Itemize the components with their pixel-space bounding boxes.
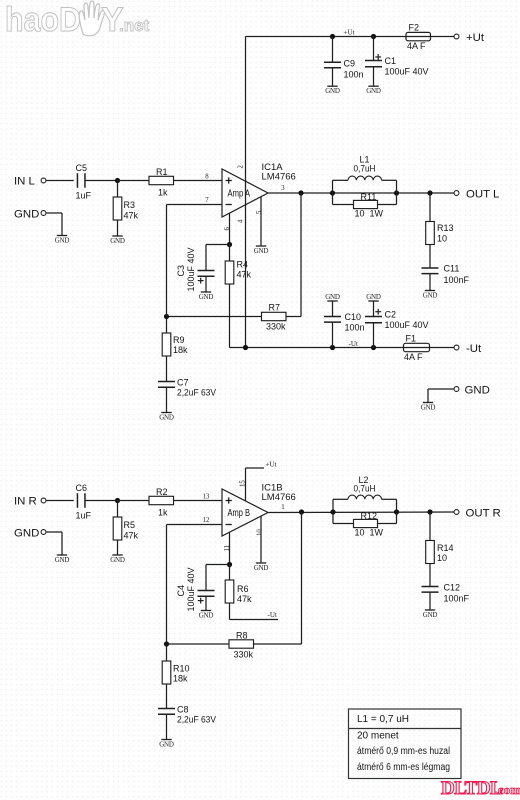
resistor R5 47k [117, 501, 119, 518]
junction pin11/C4/R6 [227, 562, 232, 567]
svg-text:15: 15 [240, 480, 247, 487]
svg-text:1uF: 1uF [76, 511, 92, 521]
wire to C3 [206, 244, 230, 246]
svg-text:átmérő 0,9 mm-es huzal: átmérő 0,9 mm-es huzal [357, 746, 450, 757]
svg-text:C5: C5 [76, 163, 88, 173]
junction output/L1 left [330, 190, 335, 195]
junction top rail C9 [330, 34, 335, 39]
ground below pin 5 [256, 245, 266, 247]
resistor R13 10 [429, 193, 431, 222]
wire R2 to IC1B pin 13 [174, 500, 223, 502]
fuse F1 4A F [404, 343, 430, 351]
svg-text:C9: C9 [344, 59, 356, 69]
wire C5 to node [85, 180, 118, 182]
feedback wire from output [300, 193, 302, 317]
junction feedback/R9 [164, 314, 169, 319]
junction feedback/R10 [164, 641, 169, 646]
wire R1 to IC1A pin 8 [174, 180, 223, 182]
svg-text:GND: GND [423, 611, 438, 619]
svg-text:R3: R3 [124, 200, 136, 210]
inductor L1 0,7uH [332, 180, 334, 193]
svg-text:8: 8 [205, 174, 209, 181]
svg-text:100nF: 100nF [444, 275, 470, 285]
svg-text:R7: R7 [269, 303, 281, 313]
pin 15 wire to +Ut stub [245, 468, 247, 501]
junction L2 right [394, 509, 399, 514]
svg-text:IN L: IN L [14, 176, 35, 188]
svg-text:18k: 18k [173, 674, 188, 684]
svg-text:R11: R11 [361, 192, 377, 202]
svg-text:12: 12 [203, 517, 210, 524]
wire GND terminal R [46, 531, 62, 533]
svg-text:0,7uH: 0,7uH [354, 484, 376, 494]
svg-text:1uF: 1uF [76, 191, 92, 201]
junction pin6/C3/R4 [227, 242, 232, 247]
capacitor C4 100uF 40V [198, 590, 215, 592]
wire R14 to C12 [429, 564, 431, 587]
capacitor C7 2,2uF 63V [158, 381, 175, 383]
wire IC1A output [268, 192, 454, 194]
svg-text:C7: C7 [177, 378, 189, 388]
svg-text:GND: GND [465, 385, 490, 397]
ground symbol right [423, 402, 433, 404]
svg-text:GND: GND [423, 292, 438, 300]
svg-text:GND: GND [199, 612, 214, 620]
svg-text:GND: GND [325, 293, 340, 301]
svg-text:R5: R5 [124, 520, 136, 530]
pin 6 wire [229, 214, 231, 245]
svg-text:IN R: IN R [14, 496, 37, 508]
svg-text:100n: 100n [345, 323, 365, 333]
svg-text:.com: .com [495, 783, 520, 797]
resistor R2 1k [149, 496, 174, 504]
svg-text:11: 11 [224, 545, 231, 552]
svg-text:C12: C12 [444, 583, 461, 593]
resistor R1 1k [149, 176, 174, 184]
svg-text:F2: F2 [409, 23, 420, 33]
svg-text:GND: GND [159, 741, 174, 749]
resistor R10 18k [166, 644, 168, 661]
svg-text:OUT R: OUT R [466, 508, 501, 520]
resistor R8 330k [229, 640, 254, 648]
resistor R7 330k [262, 312, 287, 320]
terminal -Ut [454, 345, 459, 350]
junction C5/R3/R1 [115, 178, 120, 183]
junction L1 right [394, 190, 399, 195]
capacitor C6 1uF [76, 493, 78, 508]
svg-text:GND: GND [14, 209, 39, 221]
svg-text:Amp B: Amp B [228, 508, 251, 519]
svg-text:F1: F1 [406, 334, 417, 344]
svg-text:1k: 1k [158, 188, 168, 198]
ground below C3 [201, 291, 211, 293]
svg-text:100n: 100n [344, 70, 364, 80]
junction output/feedback [298, 190, 303, 195]
svg-text:1: 1 [281, 504, 284, 511]
wire IC1B output [268, 511, 454, 514]
wire +Ut top rail [246, 36, 407, 38]
wire R9 to C7 [166, 356, 168, 382]
svg-text:C4: C4 [176, 585, 186, 597]
svg-text:+Ut: +Ut [266, 461, 277, 469]
svg-text:47k: 47k [124, 531, 139, 541]
svg-text:R1: R1 [156, 167, 168, 177]
svg-text:L1 = 0,7 uH: L1 = 0,7 uH [357, 714, 409, 725]
junction C6/R5/R2 [115, 498, 120, 503]
wire R4 to -Ut rail [229, 284, 231, 348]
svg-text:330k: 330k [234, 650, 254, 660]
terminal OUT R [454, 510, 459, 515]
svg-text:C11: C11 [444, 264, 460, 274]
svg-text:GND: GND [325, 87, 340, 95]
svg-text:100uF 40V: 100uF 40V [385, 67, 429, 77]
svg-text:R2: R2 [156, 487, 168, 497]
terminal OUT L [454, 191, 459, 196]
junction output/feedback B [299, 509, 304, 514]
junction -Ut rail pin4 [243, 345, 248, 350]
wire R5 to ground [117, 540, 119, 555]
svg-text:10 1W: 10 1W [355, 528, 384, 538]
svg-text:R4: R4 [237, 260, 249, 270]
svg-text:.net: .net [119, 16, 150, 35]
wire R13 to C11 [429, 245, 431, 269]
svg-text:18k: 18k [173, 345, 188, 355]
ground above C10 [327, 300, 337, 302]
capacitor C11 100nF [422, 267, 439, 269]
svg-text:2: 2 [238, 165, 245, 169]
pin 7 wire [167, 204, 223, 206]
ground below C12 [425, 609, 435, 611]
resistor R12 10 1W [332, 512, 334, 524]
wire R8 to inverting node B [167, 643, 230, 645]
svg-text:13: 13 [203, 493, 210, 500]
svg-text:+Ut: +Ut [466, 32, 485, 44]
wire GND terminal right [428, 388, 454, 390]
wire -Ut rail [230, 347, 404, 349]
svg-text:5: 5 [256, 210, 263, 214]
svg-text:7: 7 [205, 197, 209, 204]
wire V+ vertical to IC1A pin 2 and pin 4 to -Ut rail [245, 37, 247, 348]
resistor R6 47k [229, 565, 231, 581]
svg-text:C1: C1 [385, 56, 397, 66]
svg-text:C6: C6 [76, 483, 88, 493]
capacitor C10 100n [332, 301, 334, 317]
junction output/R13 [427, 190, 432, 195]
ground below C7 [161, 412, 171, 414]
capacitor C8 2,2uF 63V [158, 708, 175, 710]
resistor R4 47k [229, 245, 231, 262]
svg-text:-Ut: -Ut [466, 343, 482, 355]
svg-text:haoD: haoD [5, 1, 81, 39]
junction -Ut rail C2 [371, 345, 376, 350]
wire R10 to C8 [166, 684, 168, 709]
svg-text:C2: C2 [385, 310, 397, 320]
op-amp IC1B Amp B [222, 489, 268, 536]
wire R7 to inverting node [167, 316, 262, 318]
svg-text:330k: 330k [266, 322, 286, 332]
capacitor C1 100uF 40V [373, 37, 375, 61]
wire node to R2 [118, 500, 150, 502]
capacitor C2 100uF 40V [373, 301, 375, 317]
ground symbol input L [57, 235, 67, 237]
op-amp IC1A Amp A [222, 169, 268, 217]
svg-text:10: 10 [437, 553, 447, 563]
svg-text:GND: GND [14, 528, 39, 540]
wire IN R to C6 [46, 500, 74, 502]
ground below C9 [327, 85, 337, 87]
svg-text:100uF 40V: 100uF 40V [385, 320, 429, 330]
wire IN L to C5 [46, 180, 74, 182]
wire C6 to node [85, 500, 118, 502]
feedback wire from output B [301, 512, 303, 644]
wire inverting input vertical B [166, 525, 168, 645]
svg-text:4A F: 4A F [404, 352, 423, 362]
junction top rail C1 [371, 34, 376, 39]
svg-text:10 1W: 10 1W [355, 209, 384, 219]
ground symbol input R [57, 554, 67, 556]
svg-text:47k: 47k [237, 594, 252, 604]
svg-text:10: 10 [257, 529, 264, 536]
svg-text:GND: GND [110, 556, 125, 564]
pin 5 wire to ground [260, 197, 262, 246]
svg-text:4: 4 [238, 219, 245, 223]
ground below R5 [112, 554, 122, 556]
haoDIY.net watermark logo [5, 1, 150, 39]
svg-text:100uF 40V: 100uF 40V [186, 247, 196, 291]
svg-text:GND: GND [366, 87, 381, 95]
svg-text:6: 6 [224, 227, 231, 231]
svg-text:2,2uF 63V: 2,2uF 63V [177, 715, 216, 725]
svg-text:+Ut: +Ut [344, 29, 355, 37]
svg-text:C3: C3 [176, 265, 186, 277]
svg-text:LM4766: LM4766 [262, 492, 296, 503]
ground below C8 [161, 739, 171, 741]
wire node to R1 [118, 180, 150, 182]
svg-text:OUT L: OUT L [466, 189, 499, 201]
svg-text:4A F: 4A F [407, 41, 426, 51]
ground above C2 [368, 300, 378, 302]
svg-text:GND: GND [55, 556, 70, 564]
svg-text:R14: R14 [437, 543, 454, 553]
svg-text:100uF 40V: 100uF 40V [186, 567, 196, 611]
wire GND terminal L [46, 212, 62, 214]
svg-text:R13: R13 [437, 223, 454, 233]
pin 12 wire [167, 524, 223, 526]
capacitor C3 100uF 40V [198, 270, 215, 272]
svg-text:LM4766: LM4766 [262, 172, 296, 183]
svg-text:DLTDL: DLTDL [441, 778, 502, 799]
inductor L2 0,7uH [332, 499, 334, 512]
pin 10 wire to ground [260, 516, 262, 562]
svg-text:GND: GND [199, 293, 214, 301]
resistor R3 47k [117, 181, 119, 198]
svg-text:C10: C10 [345, 312, 362, 322]
terminal GND right [454, 387, 459, 392]
fuse F2 4A F [406, 32, 431, 40]
svg-text:0,7uH: 0,7uH [354, 164, 376, 174]
capacitor C5 1uF [76, 173, 78, 188]
svg-text:R9: R9 [173, 335, 185, 345]
ground below C1 [368, 85, 378, 87]
pin 11 wire [229, 532, 231, 564]
svg-text:1k: 1k [158, 508, 168, 518]
wire inverting input vertical [166, 205, 168, 317]
ground below C11 [425, 290, 435, 292]
svg-text:átmérő 6 mm-es légmag: átmérő 6 mm-es légmag [357, 762, 450, 773]
svg-text:3: 3 [281, 185, 285, 192]
svg-text:20 menet: 20 menet [357, 731, 399, 742]
ground below pin 10 [256, 562, 266, 564]
wire R6 to -Ut stub [229, 603, 231, 620]
svg-text:100nF: 100nF [444, 594, 470, 604]
svg-text:GND: GND [366, 293, 381, 301]
terminal +Ut [454, 34, 459, 39]
ground below R3 [112, 235, 122, 237]
svg-text:47k: 47k [237, 270, 252, 280]
wire to C4 [206, 564, 230, 566]
svg-text:-Ut: -Ut [268, 611, 277, 619]
svg-text:GND: GND [55, 237, 70, 245]
svg-text:10: 10 [437, 234, 447, 244]
svg-text:GND: GND [254, 564, 269, 572]
svg-text:GND: GND [110, 237, 125, 245]
svg-text:GND: GND [421, 404, 436, 412]
svg-text:R8: R8 [236, 631, 248, 641]
resistor R11 10 1W [332, 193, 334, 205]
info box L1 winding data [349, 709, 462, 779]
svg-text:-Ut: -Ut [349, 340, 358, 348]
svg-text:2,2uF 63V: 2,2uF 63V [177, 388, 216, 398]
junction -Ut rail C10 [330, 345, 335, 350]
capacitor C12 100nF [422, 586, 439, 588]
svg-text:R10: R10 [173, 664, 190, 674]
svg-text:R6: R6 [237, 584, 249, 594]
svg-text:47k: 47k [124, 211, 139, 221]
svg-text:Amp A: Amp A [228, 189, 251, 200]
junction output/R14 [427, 509, 432, 514]
svg-text:GND: GND [159, 414, 174, 422]
resistor R14 10 [429, 512, 431, 541]
ground below C4 [201, 610, 211, 612]
svg-text:GND: GND [254, 247, 269, 255]
wire R3 to ground [117, 220, 119, 236]
capacitor C9 100n [332, 37, 334, 63]
svg-text:R12: R12 [361, 511, 378, 521]
junction output/L2 left [330, 509, 335, 514]
svg-text:C8: C8 [177, 705, 189, 715]
resistor R9 18k [166, 317, 168, 334]
